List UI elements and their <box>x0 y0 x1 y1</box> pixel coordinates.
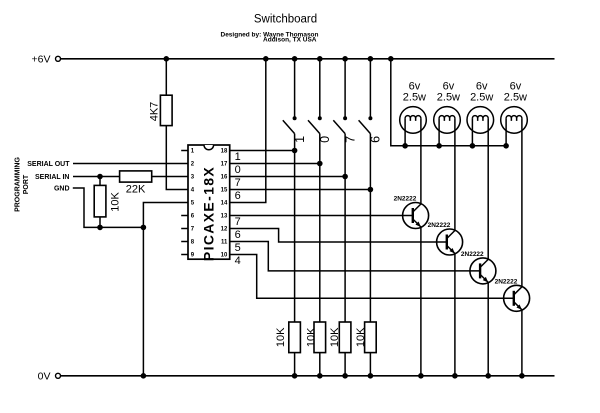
node +6V terminal <box>56 56 61 61</box>
junction 4K7 on +6V rail <box>164 56 170 62</box>
wire switch 7 lower <box>344 134 346 322</box>
junction lamp 1 on feed bus <box>402 143 408 149</box>
wire Q3 emitter to 0V <box>487 282 489 375</box>
svg-text:22K: 22K <box>126 183 146 195</box>
svg-text:10K: 10K <box>275 327 287 347</box>
wire 4K7 to pin4 <box>166 126 188 190</box>
op IC U1 PICAXE-18X body <box>188 145 230 259</box>
switch S3 contact <box>343 116 347 120</box>
junction 10K 4 on 0V rail <box>368 373 374 379</box>
resistor 10K pulldown 3 <box>339 322 351 353</box>
wire pin 17 to switch 0 <box>230 163 320 165</box>
wire switch 1 lower <box>294 134 296 322</box>
svg-text:10: 10 <box>221 253 228 259</box>
svg-text:SERIAL OUT: SERIAL OUT <box>27 161 70 168</box>
svg-text:12: 12 <box>221 227 228 233</box>
junction 10K 1 on 0V rail <box>292 373 298 379</box>
svg-text:10K: 10K <box>110 191 122 211</box>
wire 0V rail <box>61 375 555 377</box>
resistor 22K <box>120 171 152 182</box>
resistor 10K pulldown 2 <box>314 322 326 353</box>
svg-text:11: 11 <box>221 240 228 246</box>
switch S2 contact <box>318 116 322 120</box>
svg-text:2N2222: 2N2222 <box>428 222 451 229</box>
wire switch 7 upper <box>344 59 346 119</box>
wire 10K bottom <box>99 217 101 228</box>
wire lamp 4 left leg <box>505 118 507 145</box>
transistor Q1 2N2222 <box>403 203 429 229</box>
pin 9 stub <box>181 254 188 256</box>
junction 10K 3 on 0V rail <box>342 373 348 379</box>
switch S4 contact <box>368 116 372 120</box>
junction 10K 2 on 0V rail <box>317 373 323 379</box>
junction switch 7 on +6V rail <box>342 56 348 62</box>
wire pin11 to Q3 base <box>230 242 480 271</box>
switch S2 lever <box>308 120 320 133</box>
svg-text:PROGRAMMING: PROGRAMMING <box>15 157 22 212</box>
svg-text:15: 15 <box>221 188 228 194</box>
transistor Q2 2N2222 <box>437 229 463 255</box>
junction switch 0 <box>317 161 323 167</box>
wire lamp 2 right leg to collector <box>454 118 456 230</box>
junction switch 0 on +6V rail <box>317 56 323 62</box>
junction switch 6 on +6V rail <box>368 56 374 62</box>
junction switch 7 <box>342 174 348 180</box>
resistor 10K pulldown 4 <box>365 322 377 353</box>
junction Q3 emitter on 0V rail <box>485 373 491 379</box>
wire pin10 to Q4 base <box>230 255 514 299</box>
wire GND run <box>73 188 144 227</box>
resistor 4K7 <box>160 95 172 125</box>
junction pin14 on +6V rail <box>263 56 269 62</box>
wire 10K 2 to 0V <box>319 353 321 376</box>
junction 10K / GND net <box>97 225 103 231</box>
transistor Q3 2N2222 <box>470 258 496 284</box>
resistor 10K programming <box>94 185 106 217</box>
wire 10K 3 to 0V <box>344 353 346 376</box>
junction ground net <box>141 225 147 231</box>
lamp LP2 <box>434 107 461 134</box>
svg-text:14: 14 <box>221 201 228 207</box>
lamp LP3 <box>467 107 494 134</box>
wire pin12 to Q2 base <box>230 229 447 243</box>
svg-text:PICAXE-18X: PICAXE-18X <box>201 166 217 261</box>
wire pin5 to ground net <box>143 203 188 376</box>
wire pin13 to Q1 base <box>230 215 413 217</box>
junction lamp 3 on feed bus <box>470 143 476 149</box>
wire 10K 4 to 0V <box>369 353 371 376</box>
transistor Q4 2N2222 <box>504 285 530 311</box>
wire Q1 emitter to 0V <box>420 227 422 376</box>
svg-text:SERIAL IN: SERIAL IN <box>35 174 70 181</box>
junction Q1 emitter on 0V rail <box>418 373 424 379</box>
junction Q4 emitter on 0V rail <box>519 373 525 379</box>
pin 7 stub <box>181 228 188 230</box>
wire Q2 emitter to 0V <box>454 254 456 376</box>
junction switch 1 <box>292 148 298 154</box>
wire 4K7 top <box>165 59 167 95</box>
svg-text:6: 6 <box>235 229 241 241</box>
wire 22K to pin3 <box>152 176 188 178</box>
svg-text:0V: 0V <box>38 371 51 383</box>
svg-text:+6V: +6V <box>32 54 51 66</box>
wire lamp 1 right leg to collector <box>420 118 422 204</box>
wire switch 0 lower <box>319 134 321 322</box>
svg-text:7: 7 <box>235 177 241 189</box>
pin 8 stub <box>181 241 188 243</box>
svg-text:GND: GND <box>54 186 70 193</box>
svg-text:2.5w: 2.5w <box>437 92 460 104</box>
junction ground net on 0V rail <box>141 373 147 379</box>
svg-text:PORT: PORT <box>23 174 30 194</box>
wire lamp 4 right leg to collector <box>521 118 523 286</box>
lamp LP4 <box>501 107 528 134</box>
switch S3 lever <box>333 120 345 133</box>
svg-text:Switchboard: Switchboard <box>254 14 317 26</box>
wire lamp 3 left leg <box>471 118 473 145</box>
wire Q4 emitter to 0V <box>521 310 523 376</box>
svg-text:17: 17 <box>221 162 228 168</box>
lamp LP1 <box>400 107 427 134</box>
svg-text:0: 0 <box>235 164 241 176</box>
wire switch 0 upper <box>319 59 321 119</box>
svg-text:2N2222: 2N2222 <box>394 196 417 203</box>
junction switch 6 <box>368 187 374 193</box>
svg-text:2N2222: 2N2222 <box>461 251 484 258</box>
svg-text:10K: 10K <box>305 327 317 347</box>
wire 10K 1 to 0V <box>294 353 296 376</box>
wire pin14 to +6V <box>230 59 266 203</box>
IC notch <box>204 145 214 150</box>
pin 6 stub <box>181 215 188 217</box>
wire switch 1 upper <box>294 59 296 119</box>
wire lamp 3 right leg to collector <box>487 118 489 259</box>
wire serial out to pin2 <box>73 163 188 165</box>
pin 1 stub <box>181 150 188 152</box>
svg-text:2N2222: 2N2222 <box>495 278 518 285</box>
svg-text:4: 4 <box>235 255 241 267</box>
junction serial-in / 10K <box>97 174 103 180</box>
svg-text:7: 7 <box>235 216 241 228</box>
junction lamp 4 on feed bus <box>503 143 509 149</box>
svg-text:2.5w: 2.5w <box>504 92 527 104</box>
wire lamp 1 left leg <box>404 118 406 145</box>
wire pin 15 to switch 6 <box>230 189 371 191</box>
resistor 10K pulldown 1 <box>289 322 301 353</box>
svg-text:6: 6 <box>235 190 241 202</box>
junction switch 1 on +6V rail <box>292 56 298 62</box>
switch S1 contact <box>293 116 297 120</box>
node 0V terminal <box>56 373 61 378</box>
svg-text:10K: 10K <box>355 327 367 347</box>
wire pin 16 to switch 7 <box>230 176 345 178</box>
wire 10K top <box>99 177 101 186</box>
junction lamp 2 on feed bus <box>436 143 442 149</box>
svg-text:4K7: 4K7 <box>148 102 160 122</box>
wire lamp 2 left leg <box>438 118 440 145</box>
svg-text:13: 13 <box>221 214 228 220</box>
wire lamp feed <box>391 59 506 146</box>
switch S4 lever <box>359 120 371 133</box>
junction lamp feed on +6V rail <box>388 56 394 62</box>
svg-text:Addison, TX USA: Addison, TX USA <box>263 37 317 44</box>
svg-text:2.5w: 2.5w <box>470 92 493 104</box>
svg-text:5: 5 <box>235 242 241 254</box>
junction Q2 emitter on 0V rail <box>452 373 458 379</box>
svg-text:2.5w: 2.5w <box>403 92 426 104</box>
wire switch 6 lower <box>369 134 371 322</box>
switch S1 lever <box>283 120 295 133</box>
wire switch 6 upper <box>369 59 371 119</box>
svg-text:10K: 10K <box>329 327 341 347</box>
wire pin 18 to switch 1 <box>230 150 295 152</box>
svg-text:18: 18 <box>221 149 228 155</box>
wire serial in <box>73 176 120 178</box>
svg-text:1: 1 <box>235 151 241 163</box>
svg-text:16: 16 <box>221 175 228 181</box>
wire +6V rail <box>61 58 555 60</box>
